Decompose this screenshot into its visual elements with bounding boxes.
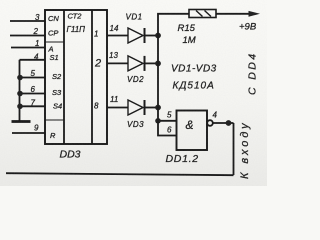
junction VD2 cathode: [155, 61, 161, 67]
IC DD3 separator under CP: [45, 41, 64, 43]
wire pin 4 input S1: [20, 59, 46, 61]
IC DD3 output column divider: [91, 10, 93, 144]
arrow to +9V: [249, 11, 261, 17]
diode VD3: [128, 100, 158, 115]
wire ground bus S1-S4: [19, 60, 21, 121]
IC DD3 outline: [45, 10, 107, 144]
wire pin 6 input: [158, 121, 177, 136]
junction VD3 cathode: [155, 105, 161, 111]
wire pin 7 input S4: [20, 105, 46, 107]
wire pin 14 output: [107, 35, 128, 37]
wire cathode bus to resistor: [158, 14, 189, 121]
junction S2: [17, 75, 23, 81]
wire pin 9 input R: [12, 132, 45, 134]
wire pin 2 input CP: [10, 35, 45, 37]
junction pin 5 tap: [155, 118, 161, 124]
junction VD1 cathode: [155, 33, 161, 39]
NAND gate DD1.2: [177, 111, 208, 151]
NAND output inversion circle: [207, 120, 213, 126]
wire resistor to +9V: [216, 13, 251, 15]
wire pin 13 output: [107, 62, 128, 64]
IC DD3 label column divider: [63, 10, 65, 144]
resistor R15: [189, 10, 216, 18]
junction S4: [17, 104, 23, 110]
diode VD1: [128, 28, 158, 43]
wire pin 1 input A: [11, 47, 45, 49]
IC DD3 separator above R: [45, 119, 64, 121]
wire pin 6 input S3: [20, 93, 46, 95]
wire down to bottom rail: [233, 123, 235, 175]
wire pin 11 output: [107, 107, 128, 109]
bottom rail wire: [6, 173, 234, 175]
wire pin 5 input: [158, 120, 177, 122]
ground symbol: [12, 120, 31, 123]
diode VD2: [128, 56, 158, 71]
junction output node: [226, 120, 232, 126]
junction S3: [17, 91, 23, 97]
wire pin 3 input CN: [10, 20, 45, 22]
wire pin 5 input S2: [20, 77, 46, 79]
wire pin 4 output: [213, 122, 234, 124]
